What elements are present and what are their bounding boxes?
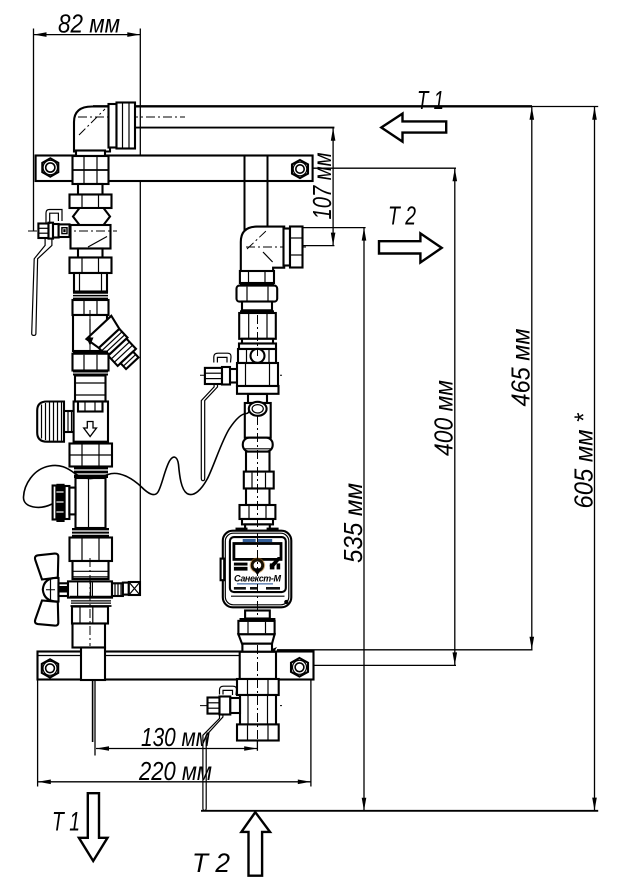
stub below meter (245, 611, 270, 619)
svg-text:T 1: T 1 (417, 85, 444, 115)
drain cock valve body (68, 581, 112, 597)
sensor tee neck (248, 394, 267, 403)
heat meter left tab (221, 559, 225, 581)
dark union band (73, 292, 108, 301)
dimension 107mm line (332, 128, 334, 246)
wire T1 top pipe line (93, 105, 532, 107)
dark band (73, 371, 108, 376)
flow arrow T1 top (left pointing) (381, 114, 446, 142)
hex coupling (237, 286, 278, 302)
wire 465mm oblique leader (266, 648, 276, 657)
joint lines below body (70, 596, 112, 599)
flow arrow T2 right (right pointing) (379, 233, 442, 262)
heat meter buttons row (234, 563, 248, 571)
collar on elbow outlet (284, 229, 291, 266)
hex nut (238, 621, 274, 634)
dark band (240, 310, 274, 313)
wide hex (237, 679, 279, 695)
strainer flow arrow (89, 319, 91, 338)
valve stem axis (28, 230, 117, 232)
heat meter face panel (230, 537, 286, 592)
strainer branch 45deg with cap (86, 316, 144, 375)
butterfly handle upper wing (35, 554, 58, 580)
collar on elbow horizontal outlet (109, 104, 117, 148)
valve lever handle long (203, 714, 223, 811)
collar cylinder (73, 561, 109, 579)
svg-text:465 мм: 465 мм (506, 328, 536, 406)
cylinder (246, 452, 270, 472)
hex coupling (70, 538, 113, 562)
cylinder union body (239, 313, 276, 339)
wire 82mm right extension (139, 29, 141, 590)
svg-text:605 мм *: 605 мм * (569, 413, 599, 509)
svg-text:T 1: T 1 (52, 807, 80, 837)
heat meter small bottom text (234, 587, 246, 590)
cylinder section (75, 376, 106, 402)
valve stem bolt (38, 224, 48, 239)
union nut on elbow outlet (290, 227, 303, 268)
dark union band (74, 467, 108, 479)
svg-text:220 мм: 220 мм (138, 756, 212, 786)
heat meter body (223, 531, 291, 608)
collar (78, 249, 103, 258)
drain axis (46, 589, 143, 591)
collar below elbow (76, 151, 105, 157)
wire 535mm top extension (303, 227, 366, 229)
dimension 605mm line (594, 107, 596, 811)
valve stem bolt (208, 698, 220, 714)
cylinder section (74, 273, 107, 292)
wire 465mm bottom extension (277, 649, 533, 651)
transition rings (242, 339, 273, 344)
hex fitting (244, 472, 274, 489)
drain cock outlet (112, 583, 123, 596)
pipe stub below bracket (92, 680, 94, 742)
dimension 400mm line (454, 168, 456, 665)
dark joint (73, 351, 108, 354)
bolt top-left (42, 158, 58, 176)
valve lever hook (214, 353, 231, 362)
wire 400mm top extension (306, 167, 456, 169)
union nut on elbow horizontal outlet (117, 103, 136, 149)
dark joint (240, 283, 274, 286)
wire 400mm bottom extension (308, 664, 456, 666)
valve lever hook (46, 210, 62, 225)
union nut crossing top bracket (73, 156, 109, 184)
butterfly stem (59, 583, 69, 596)
heat meter top tabs (236, 528, 248, 531)
hex coupling (70, 258, 112, 274)
butterfly handle lower wing (35, 601, 58, 626)
taper (238, 634, 274, 643)
test port plates (left) (53, 486, 57, 520)
dark union band (72, 528, 109, 538)
wire 220mm left extension (37, 680, 39, 787)
pipe section (76, 478, 106, 528)
collar (242, 519, 273, 524)
valve lever handle (32, 238, 52, 335)
balancing valve handwheel (37, 402, 64, 442)
dimension 130mm line (96, 748, 257, 750)
hex nut below elbow (240, 271, 274, 283)
ball valve body (71, 225, 111, 249)
collar (242, 302, 272, 311)
valve lever hook (220, 686, 237, 695)
balancing valve body (74, 402, 108, 442)
dimension 82mm line (34, 34, 141, 36)
bolt bottom-right (291, 658, 308, 677)
flow arrow T1 bottom (down pointing) (79, 793, 108, 861)
heat meter top blue label (243, 539, 256, 542)
hex fitting (72, 607, 108, 624)
svg-text:T 2: T 2 (192, 848, 230, 878)
collar (78, 184, 103, 195)
svg-text:T 2: T 2 (388, 201, 416, 231)
dimension 465mm line (531, 107, 533, 650)
ball valve hexagon (73, 208, 110, 225)
cylinder to bracket (73, 624, 106, 648)
flange disc (237, 386, 279, 394)
svg-text:130 мм: 130 мм (141, 722, 210, 752)
valve stem axis (200, 374, 283, 376)
wire 82mm left extension (33, 29, 35, 231)
heat meter seal dot (284, 600, 288, 604)
valve body lower (240, 695, 276, 725)
cylinder to bracket (242, 644, 272, 652)
wire 220mm right extension (310, 680, 312, 787)
heat meter LCD (234, 544, 281, 560)
pipe through bottom bracket (81, 648, 105, 681)
flow arrow T2 bottom (up pointing) (241, 812, 270, 876)
bolt top-right (292, 160, 308, 178)
wire 130mm right extension (256, 741, 258, 751)
wire 130mm left extension (94, 679, 96, 756)
svg-text:107 мм: 107 мм (307, 152, 337, 219)
hex coupling (73, 354, 109, 371)
elbow T2 (horizontal outlet right) (241, 227, 284, 271)
ball valve upper section through bracket (240, 652, 276, 679)
sensor tee body (245, 403, 271, 438)
elbow T1 top-left (74, 107, 134, 152)
heat meter center button (pin shape) (252, 560, 263, 571)
dimension 220mm line (38, 781, 311, 783)
valve stem bolt (205, 368, 222, 384)
hex coupling (70, 444, 113, 467)
right column centerline (257, 315, 259, 356)
strainer body (73, 315, 107, 351)
svg-text:535 мм: 535 мм (338, 483, 368, 563)
valve body (224, 369, 238, 383)
bracket bottom mounting rail (38, 652, 314, 680)
hex nut (73, 300, 109, 315)
hex fitting (70, 195, 112, 209)
sensor opening ellipse (249, 402, 267, 416)
wire bottom pipe-end line (201, 810, 598, 812)
wire T1 pipe bottom edge / 107mm top extension (134, 127, 334, 129)
left column centerline (89, 310, 91, 350)
bottom hex (237, 724, 279, 740)
heat meter pointer wedge (269, 557, 282, 568)
torus collar (243, 438, 273, 452)
butterfly hub (43, 578, 59, 602)
sensor cable (23, 411, 249, 508)
wire 107mm bottom extension (303, 245, 335, 247)
hex nut (240, 505, 276, 519)
support bar between bracket and T2 elbow (244, 156, 246, 231)
svg-text:82 мм: 82 мм (58, 9, 120, 39)
ball valve hex with ball (238, 349, 276, 363)
bolt bottom-left (42, 659, 58, 677)
valve lever handle (201, 384, 217, 481)
valve stem axis (200, 705, 283, 707)
stub (245, 524, 270, 530)
cylinder (246, 489, 270, 506)
svg-text:400 мм: 400 мм (429, 380, 459, 456)
bracket top mounting rail (36, 156, 313, 182)
dimension 535mm line (363, 228, 365, 811)
balancing valve stem (64, 411, 76, 432)
